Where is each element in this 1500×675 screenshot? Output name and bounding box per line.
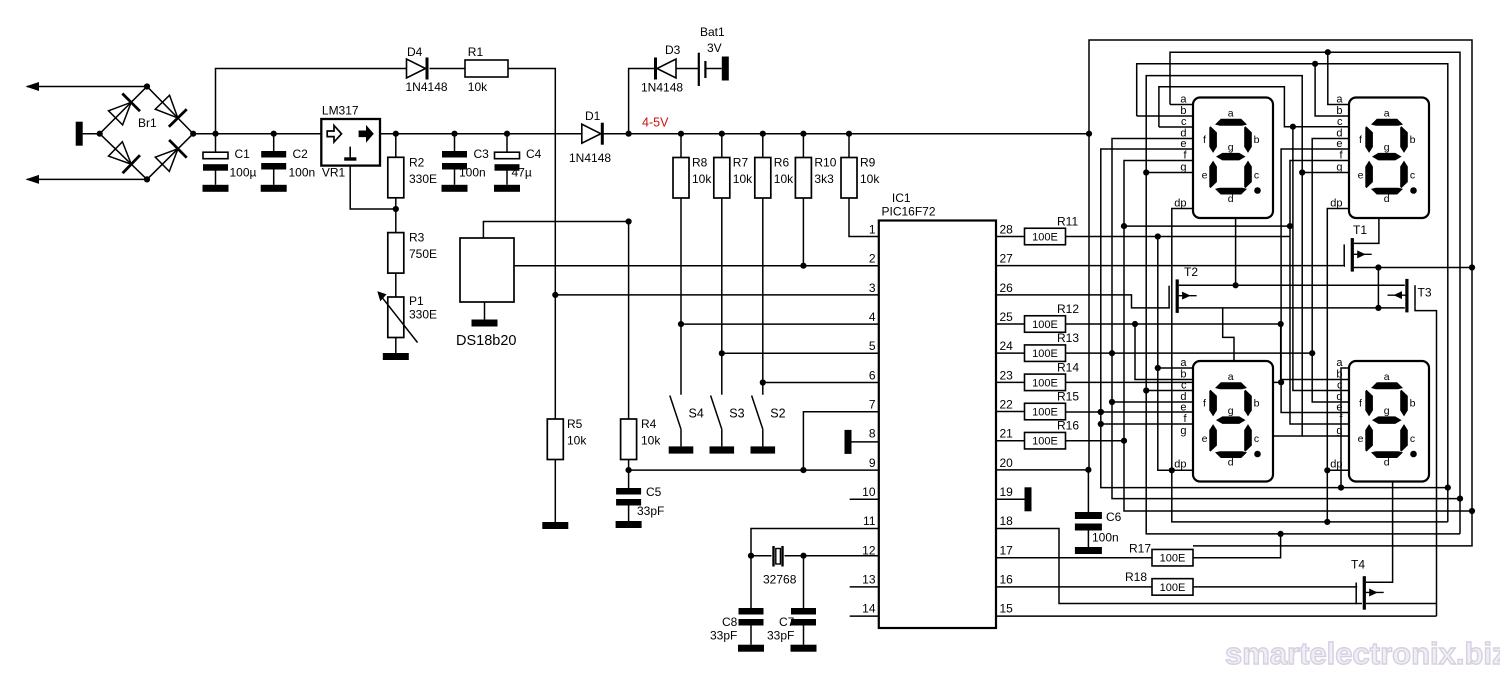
T3 wire down to T4 source row bbox=[1415, 307, 1437, 616]
transistor T3 bbox=[1405, 279, 1408, 313]
svg-text:R9: R9 bbox=[860, 156, 876, 170]
svg-text:R12: R12 bbox=[1057, 302, 1079, 316]
display C pin labels a-g,dp bbox=[1174, 357, 1187, 471]
svg-text:e: e bbox=[1180, 138, 1186, 150]
svg-text:S3: S3 bbox=[729, 407, 744, 421]
wire R6 to switch column bbox=[762, 198, 764, 395]
svg-text:R4: R4 bbox=[641, 417, 657, 431]
resistor R13 bbox=[996, 352, 1025, 354]
node rail at D3 branch bbox=[626, 131, 632, 137]
wire R10 down to pin 2 row bbox=[802, 198, 804, 266]
display A segment c bbox=[1244, 161, 1252, 189]
AC output arrow bottom bbox=[27, 178, 147, 180]
svg-text:C5: C5 bbox=[646, 485, 662, 499]
svg-text:R5: R5 bbox=[567, 417, 583, 431]
diode D1 bbox=[582, 124, 601, 143]
trimmer P1 bbox=[388, 297, 404, 338]
wire R8 to switch column bbox=[680, 198, 682, 395]
display A segment g bbox=[1216, 153, 1246, 161]
svg-text:100E: 100E bbox=[1032, 348, 1058, 360]
svg-text:c: c bbox=[1181, 116, 1187, 128]
node T1 source border bbox=[1469, 264, 1475, 270]
svg-text:100E: 100E bbox=[1032, 406, 1058, 418]
node T1 source drop bbox=[1375, 264, 1381, 270]
segment bus a top bbox=[1170, 52, 1460, 534]
svg-text:R2: R2 bbox=[409, 155, 425, 169]
svg-text:VR1: VR1 bbox=[322, 166, 346, 180]
node R15 e column bbox=[1098, 409, 1104, 415]
display C b wire bbox=[1135, 324, 1193, 379]
svg-text:D1: D1 bbox=[585, 109, 601, 123]
svg-text:R8: R8 bbox=[692, 156, 708, 170]
svg-text:d: d bbox=[1228, 457, 1234, 469]
node pin7 drop bbox=[800, 467, 806, 473]
node DS18b20 vcc bbox=[626, 218, 632, 224]
svg-text:6: 6 bbox=[869, 368, 876, 382]
wire VDD border leg bbox=[1088, 134, 1090, 470]
display D segment d bbox=[1371, 451, 1403, 458]
DS18b20 data wire to pin 2 bbox=[514, 265, 879, 267]
node f cross right bbox=[1287, 223, 1293, 229]
svg-text:19: 19 bbox=[1000, 485, 1014, 499]
svg-text:C6: C6 bbox=[1106, 510, 1122, 524]
segment bus g top bbox=[1146, 76, 1302, 436]
wire R12 output bbox=[1066, 323, 1281, 325]
svg-text:d: d bbox=[1384, 193, 1390, 205]
node a3 bbox=[1155, 365, 1161, 371]
svg-text:10k: 10k bbox=[733, 172, 753, 186]
svg-text:T2: T2 bbox=[1184, 265, 1198, 279]
wire bus g to display B bbox=[1302, 172, 1349, 174]
svg-text:g: g bbox=[1228, 405, 1234, 417]
svg-text:100E: 100E bbox=[1032, 377, 1058, 389]
svg-text:10k: 10k bbox=[641, 434, 661, 448]
transistor T1 bbox=[1351, 238, 1354, 272]
node R16 f column bbox=[1121, 438, 1127, 444]
node d bus bbox=[1457, 496, 1463, 502]
IC pin numbers bbox=[862, 223, 1013, 616]
svg-text:100E: 100E bbox=[1032, 319, 1058, 331]
T2 source row to T3 bbox=[1179, 307, 1405, 309]
display B segment d bbox=[1371, 188, 1403, 195]
display A segment e bbox=[1209, 161, 1217, 189]
svg-text:g: g bbox=[1384, 142, 1390, 154]
diode D3 bbox=[654, 58, 657, 80]
svg-text:26: 26 bbox=[1000, 281, 1014, 295]
svg-text:4: 4 bbox=[869, 310, 876, 324]
node display A common bbox=[1233, 282, 1239, 288]
bridge diode top-left bbox=[109, 102, 132, 125]
node C4 bbox=[504, 131, 510, 137]
svg-text:330E: 330E bbox=[409, 308, 437, 322]
svg-text:R16: R16 bbox=[1057, 419, 1079, 433]
svg-text:33pF: 33pF bbox=[637, 504, 664, 518]
battery Bat1 3V bbox=[698, 53, 700, 86]
svg-text:PIC16F72: PIC16F72 bbox=[882, 205, 936, 219]
svg-text:10k: 10k bbox=[774, 172, 794, 186]
wire R7 to switch column bbox=[721, 198, 723, 395]
capacitor C4 bbox=[506, 134, 508, 153]
wire sensor column down to R4 bbox=[628, 222, 630, 420]
svg-text:e: e bbox=[1336, 138, 1342, 150]
svg-text:21: 21 bbox=[1000, 427, 1014, 441]
resistor R2 bbox=[395, 134, 397, 158]
ground below R5 bbox=[542, 522, 568, 529]
node c3 bbox=[1143, 387, 1149, 393]
display A segment letter labels bbox=[1202, 108, 1260, 206]
display D a wire bbox=[1341, 368, 1349, 488]
display A decimal point bbox=[1254, 187, 1261, 194]
segment bus c top bbox=[1159, 87, 1349, 127]
resistor R4 bbox=[621, 419, 637, 460]
display C a wire from R11 bbox=[1157, 237, 1159, 471]
display D pin labels a-g,dp bbox=[1330, 357, 1343, 471]
resistor R16 bbox=[996, 440, 1025, 442]
svg-text:15: 15 bbox=[1000, 602, 1014, 616]
display D segment g bbox=[1372, 416, 1402, 424]
svg-text:f: f bbox=[1359, 398, 1362, 410]
svg-text:28: 28 bbox=[1000, 223, 1014, 237]
switch S2 bbox=[752, 396, 763, 430]
node f bus bbox=[1469, 508, 1475, 514]
svg-text:3: 3 bbox=[869, 281, 876, 295]
display D segment a bbox=[1371, 382, 1403, 389]
svg-text:c: c bbox=[1337, 116, 1343, 128]
ground below DS18b20 bbox=[472, 320, 498, 327]
resistor R5 bbox=[547, 419, 563, 460]
svg-text:17: 17 bbox=[1000, 543, 1014, 557]
svg-text:10k: 10k bbox=[860, 172, 880, 186]
pin 17 wire to R17 bbox=[996, 557, 1152, 559]
svg-text:24: 24 bbox=[1000, 339, 1014, 353]
svg-text:g: g bbox=[1336, 162, 1342, 174]
svg-text:330E: 330E bbox=[409, 172, 437, 186]
pin wire R6 row to IC bbox=[763, 382, 879, 384]
display C segment g bbox=[1216, 416, 1246, 424]
svg-text:R10: R10 bbox=[814, 156, 836, 170]
LM317 output filled arrow bbox=[359, 125, 374, 143]
crystal 32768 bbox=[772, 546, 774, 567]
node VR1 out bbox=[393, 131, 399, 137]
svg-text:a: a bbox=[1228, 108, 1234, 120]
svg-text:a: a bbox=[1228, 371, 1234, 383]
svg-text:a: a bbox=[1336, 94, 1343, 106]
capacitor C5 bbox=[628, 470, 630, 488]
svg-text:3V: 3V bbox=[707, 41, 722, 55]
display C f wire bbox=[1101, 423, 1193, 425]
svg-text:S4: S4 bbox=[689, 407, 704, 421]
display A f wire bbox=[1124, 161, 1472, 512]
svg-text:R13: R13 bbox=[1057, 331, 1079, 345]
ground below C7 bbox=[791, 645, 817, 652]
ground below C6 bbox=[1075, 547, 1102, 554]
svg-text:10k: 10k bbox=[567, 434, 587, 448]
svg-text:e: e bbox=[1180, 402, 1186, 414]
svg-text:T3: T3 bbox=[1418, 286, 1432, 300]
wire bus a to display B bbox=[1328, 52, 1349, 104]
svg-text:g: g bbox=[1384, 405, 1390, 417]
svg-text:e: e bbox=[1202, 433, 1208, 445]
node R11 to display C a bbox=[1155, 233, 1161, 239]
svg-text:16: 16 bbox=[1000, 573, 1014, 587]
pin 11 wire to crystal bbox=[751, 529, 879, 556]
svg-text:1: 1 bbox=[869, 223, 876, 237]
svg-text:c: c bbox=[1410, 170, 1415, 182]
node bus c display B bbox=[1290, 124, 1296, 130]
pin 9 wire bbox=[629, 469, 879, 471]
pin 18 wire to T4 source row bbox=[996, 529, 1362, 604]
svg-text:c: c bbox=[1254, 433, 1259, 445]
display B d wire bbox=[1312, 139, 1349, 403]
display B f wire bbox=[1290, 161, 1349, 425]
node R13 d2 column bbox=[1309, 350, 1315, 356]
svg-text:33pF: 33pF bbox=[710, 629, 737, 643]
pin wire R7 row to IC bbox=[722, 352, 879, 354]
svg-text:1N4148: 1N4148 bbox=[406, 80, 448, 94]
display A pin labels a-g,dp bbox=[1174, 94, 1187, 210]
resistor R11 bbox=[996, 236, 1025, 238]
7-segment display display A bbox=[1193, 98, 1273, 219]
node f3 bbox=[1098, 421, 1104, 427]
voltage regulator VR1 LM317 bbox=[321, 119, 380, 166]
switch S4 bbox=[670, 396, 681, 430]
node C2 bbox=[271, 131, 277, 137]
7-segment display display C bbox=[1193, 361, 1273, 482]
capacitor C1 bbox=[215, 134, 217, 153]
svg-text:D3: D3 bbox=[665, 43, 681, 57]
node R7 pin row bbox=[719, 350, 725, 356]
7-segment display display B bbox=[1349, 98, 1429, 219]
node R8 pin row bbox=[678, 321, 684, 327]
svg-text:c: c bbox=[1337, 380, 1343, 392]
svg-text:R11: R11 bbox=[1057, 215, 1078, 229]
svg-text:DS18b20: DS18b20 bbox=[456, 333, 516, 349]
pin 20 VDD wire bbox=[996, 469, 1088, 471]
f cross row bbox=[1124, 225, 1290, 227]
main +V rail wire bbox=[193, 133, 321, 135]
ground below C1 bbox=[203, 185, 229, 192]
node dp3 bbox=[1169, 467, 1175, 473]
pin 8 ground block bbox=[845, 430, 852, 454]
svg-text:a: a bbox=[1384, 108, 1390, 120]
input terminal J1 bbox=[76, 122, 83, 146]
svg-text:dp: dp bbox=[1174, 459, 1186, 471]
svg-text:20: 20 bbox=[1000, 456, 1014, 470]
resistor R12 bbox=[996, 323, 1025, 325]
svg-text:8: 8 bbox=[869, 427, 876, 441]
svg-text:32768: 32768 bbox=[763, 573, 797, 587]
pin 16 wire to R18 bbox=[996, 586, 1152, 588]
svg-text:LM317: LM317 bbox=[322, 104, 359, 118]
node e bus bbox=[1445, 485, 1451, 491]
segment g left column down bbox=[1146, 173, 1460, 534]
svg-text:R14: R14 bbox=[1057, 360, 1079, 374]
T4 source wire bbox=[1366, 603, 1437, 605]
svg-text:4-5V: 4-5V bbox=[642, 116, 669, 130]
resistor R7 bbox=[719, 131, 725, 137]
display B pin labels a-g,dp bbox=[1330, 94, 1343, 210]
7-segment display display D bbox=[1349, 361, 1429, 482]
wire D3 branch bbox=[629, 69, 654, 134]
svg-text:25: 25 bbox=[1000, 310, 1014, 324]
svg-text:2: 2 bbox=[869, 252, 876, 266]
display A pin wires bbox=[1170, 104, 1193, 106]
svg-text:d: d bbox=[1228, 193, 1234, 205]
bridge diode top-right bbox=[155, 95, 178, 118]
svg-text:R7: R7 bbox=[733, 156, 749, 170]
wire bus b to display B bbox=[1315, 64, 1349, 116]
transistor T2 bbox=[1176, 279, 1179, 313]
display D segment f bbox=[1365, 390, 1373, 417]
svg-text:a: a bbox=[1384, 371, 1390, 383]
wire to crystal bbox=[751, 555, 772, 557]
svg-text:b: b bbox=[1254, 398, 1260, 410]
display C decimal point bbox=[1254, 451, 1261, 458]
display B dp wire bbox=[1327, 209, 1349, 471]
display C segment c bbox=[1244, 424, 1252, 452]
svg-text:100E: 100E bbox=[1032, 231, 1058, 243]
wire R15 output to display C segment e bbox=[1066, 411, 1194, 413]
display D segment e bbox=[1365, 424, 1373, 452]
svg-text:R6: R6 bbox=[774, 156, 790, 170]
pin 7 wire to pin 9 row bbox=[803, 412, 878, 470]
wire R1 column to R5 bbox=[554, 295, 556, 419]
wire D4 to R1 bbox=[430, 68, 466, 70]
LM317 input open arrow bbox=[327, 126, 341, 143]
svg-text:100E: 100E bbox=[1032, 436, 1058, 448]
switch S3 bbox=[711, 396, 722, 430]
capacitor C2 bbox=[273, 134, 275, 151]
node R6 pin row bbox=[760, 379, 766, 385]
resistor R17 bbox=[1152, 549, 1193, 566]
ground below C8 bbox=[738, 645, 764, 652]
svg-text:1N4148: 1N4148 bbox=[569, 151, 611, 165]
node d3 bbox=[1109, 399, 1115, 405]
node R17 dp bus bbox=[1278, 531, 1284, 537]
node R13 d column bbox=[1109, 350, 1115, 356]
IC U1 PIC16F72 bbox=[879, 221, 996, 629]
wire R14 output bbox=[1066, 381, 1282, 383]
svg-text:10k: 10k bbox=[468, 80, 488, 94]
svg-text:Br1: Br1 bbox=[138, 116, 157, 130]
node C1 bbox=[212, 131, 218, 137]
svg-text:R17: R17 bbox=[1129, 542, 1151, 556]
display A segment f bbox=[1209, 126, 1217, 153]
node border rail bbox=[1086, 131, 1092, 137]
svg-text:C7: C7 bbox=[779, 615, 795, 629]
display D segment b bbox=[1400, 390, 1408, 417]
display B decimal point bbox=[1410, 187, 1417, 194]
sensor DS18b20 bbox=[460, 238, 514, 302]
svg-text:100µ: 100µ bbox=[230, 166, 257, 180]
display A d wire bbox=[1112, 139, 1460, 499]
node C3 bbox=[451, 131, 457, 137]
T1 gate wire bbox=[1343, 265, 1346, 267]
svg-text:dp: dp bbox=[1330, 198, 1342, 210]
capacitor C3 bbox=[454, 134, 456, 151]
node bus a disp B bbox=[1325, 49, 1331, 55]
svg-text:C4: C4 bbox=[526, 147, 542, 161]
resistor R14 bbox=[996, 381, 1025, 383]
svg-text:47µ: 47µ bbox=[512, 166, 532, 180]
pin 27 wire to T1 gate bbox=[996, 265, 1345, 267]
node bus b disp B bbox=[1312, 61, 1318, 67]
pin 19 ground block bbox=[1025, 487, 1032, 511]
node R2 bottom bbox=[393, 206, 399, 212]
display A g wire bbox=[1146, 172, 1193, 174]
resistor R10 bbox=[800, 131, 806, 137]
T1 source wire to border bbox=[1354, 267, 1472, 269]
svg-text:750E: 750E bbox=[409, 247, 437, 261]
display B segment g bbox=[1372, 153, 1402, 161]
wire crystal to pin 12 bbox=[785, 555, 879, 557]
svg-text:23: 23 bbox=[1000, 368, 1014, 382]
transistor T4 bbox=[1363, 576, 1366, 610]
display C a row bbox=[1158, 367, 1193, 369]
svg-text:f: f bbox=[1203, 398, 1206, 410]
node C7 tap bbox=[800, 553, 806, 559]
node bridge top bbox=[144, 83, 150, 89]
svg-text:C2: C2 bbox=[293, 147, 309, 161]
wire bus c to display D bbox=[1293, 127, 1349, 391]
svg-text:g: g bbox=[1180, 162, 1186, 174]
display D segment c bbox=[1400, 424, 1408, 452]
node R12 b4 drop bbox=[1278, 321, 1284, 327]
svg-text:100n: 100n bbox=[1092, 531, 1119, 545]
node f cross left bbox=[1121, 223, 1127, 229]
svg-text:10k: 10k bbox=[692, 172, 712, 186]
wire R9 to pin 1 bbox=[849, 198, 879, 237]
display C segment b bbox=[1244, 390, 1252, 417]
wire T1 source to T3 row bbox=[1377, 268, 1379, 308]
pin wire R8 row to IC bbox=[681, 323, 879, 325]
node R4 bottom bbox=[626, 467, 632, 473]
resistor R6 bbox=[760, 131, 766, 137]
ground below C4 bbox=[494, 185, 520, 192]
capacitor C8 bbox=[750, 556, 752, 608]
wire LM317 output to D1 bbox=[380, 133, 582, 135]
svg-text:R1: R1 bbox=[468, 45, 484, 59]
T1 drain wire to display B common bbox=[1354, 218, 1379, 243]
display A segment a bbox=[1215, 119, 1247, 126]
segment bus b top bbox=[1137, 64, 1448, 522]
node T3 row bbox=[1375, 305, 1381, 311]
svg-text:P1: P1 bbox=[409, 294, 424, 308]
node dp2 dp4 join bbox=[1324, 467, 1330, 473]
svg-text:Bat1: Bat1 bbox=[700, 25, 725, 39]
svg-text:d: d bbox=[1384, 457, 1390, 469]
svg-text:b: b bbox=[1410, 134, 1416, 146]
svg-text:C1: C1 bbox=[235, 147, 251, 161]
display D decimal point bbox=[1410, 451, 1417, 458]
svg-text:100n: 100n bbox=[459, 166, 486, 180]
capacitor C7 bbox=[803, 556, 805, 608]
svg-text:f: f bbox=[1203, 134, 1206, 146]
bridge rectifier Br1 bbox=[100, 87, 194, 180]
T2 drain row to displays common bbox=[1179, 284, 1405, 286]
display B segment letter labels bbox=[1358, 108, 1416, 206]
wire LM317 adj down bbox=[350, 166, 396, 209]
display A segment d bbox=[1215, 188, 1247, 195]
svg-text:dp: dp bbox=[1174, 198, 1186, 210]
svg-text:a: a bbox=[1180, 94, 1187, 106]
pin 26 wire to T2 gate bbox=[996, 295, 1170, 308]
node a4 bbox=[1338, 485, 1344, 491]
svg-text:e: e bbox=[1202, 170, 1208, 182]
display C segment f bbox=[1209, 390, 1217, 417]
bridge diode bottom-left bbox=[108, 142, 131, 164]
display A e wire bbox=[1101, 149, 1448, 488]
